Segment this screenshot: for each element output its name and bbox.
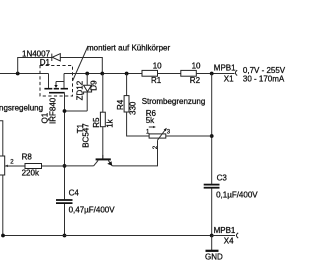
- wire source side to R1: [64, 73, 142, 75]
- svg-text:MPB1: MPB1: [214, 226, 236, 235]
- svg-text:X4: X4: [224, 237, 234, 246]
- resistor R5: [102, 74, 104, 113]
- node zener junction: [85, 72, 89, 76]
- node rail output junction: [210, 234, 214, 238]
- node D1 branch junction: [16, 72, 20, 76]
- transistor T1: [96, 158, 111, 160]
- capacitor C4: [56, 199, 73, 201]
- connector X1 MPB1: [235, 70, 237, 75]
- resistor R1: [142, 70, 158, 76]
- svg-text:10: 10: [153, 61, 162, 70]
- wire D1 bypass branch: [18, 58, 52, 74]
- node diode return / R5 junction: [100, 72, 104, 76]
- svg-text:0,47µF/400V: 0,47µF/400V: [69, 205, 116, 214]
- svg-text:Strombegrenzung: Strombegrenzung: [142, 97, 206, 106]
- svg-text:ZD12: ZD12: [76, 80, 85, 100]
- resistor R4: [126, 74, 128, 96]
- diode D1: [51, 54, 53, 61]
- resistor R2: [181, 70, 197, 76]
- wire pot pin2: [112, 140, 157, 166]
- svg-text:3: 3: [167, 130, 171, 136]
- svg-text:2: 2: [153, 145, 159, 149]
- transistor Q1 MOSFET symbol: [44, 89, 68, 93]
- svg-text:D9: D9: [90, 80, 99, 91]
- svg-text:montiert auf Kühlkörper: montiert auf Kühlkörper: [87, 44, 170, 53]
- svg-text:BC547: BC547: [82, 123, 91, 148]
- wire R2 to X1: [196, 73, 234, 75]
- resistor R8: [25, 164, 42, 169]
- wire T1 collector to gate node: [65, 165, 94, 167]
- bottom rail wire: [3, 235, 212, 237]
- svg-text:ngsregelung: ngsregelung: [0, 103, 43, 112]
- svg-text:10: 10: [192, 61, 201, 70]
- svg-text:5k: 5k: [146, 116, 155, 125]
- wire pot pin3 to output: [166, 135, 212, 137]
- svg-text:0,1µF/400V: 0,1µF/400V: [216, 190, 258, 199]
- wire gate / C4 vertical: [64, 94, 66, 200]
- capacitor C3: [204, 184, 220, 186]
- svg-text:X1: X1: [224, 74, 234, 83]
- dashed heatsink outline around Q1: [40, 66, 73, 97]
- node rail left corner: [1, 234, 5, 238]
- svg-text:GND: GND: [205, 253, 223, 262]
- svg-text:C4: C4: [69, 189, 80, 198]
- ground symbol: [211, 236, 213, 251]
- potentiometer R6: [149, 134, 166, 138]
- svg-text:R8: R8: [22, 153, 33, 162]
- svg-text:R2: R2: [190, 76, 201, 85]
- node gate-zener junction: [63, 109, 67, 113]
- svg-text:R1: R1: [151, 76, 162, 85]
- svg-text:30 - 170mA: 30 - 170mA: [243, 75, 285, 84]
- zener diode D9 ZD12: [86, 74, 88, 86]
- svg-text:MPB1: MPB1: [214, 63, 236, 72]
- svg-text:IRF840: IRF840: [49, 97, 58, 124]
- svg-text:R4: R4: [116, 99, 125, 110]
- node R4 junction: [125, 72, 129, 76]
- potentiometer P (left edge, clipped): [0, 121, 3, 156]
- node output junction: [210, 72, 214, 76]
- wire output vertical: [211, 74, 213, 184]
- svg-text:330: 330: [128, 101, 137, 115]
- annotation line to "montiert auf Kühlkörper": [73, 46, 89, 81]
- svg-text:2: 2: [10, 159, 14, 165]
- wire main input (left, drain side): [0, 73, 49, 75]
- svg-text:R5: R5: [92, 117, 101, 128]
- wire R1 to R2: [158, 73, 181, 75]
- svg-text:220k: 220k: [22, 168, 40, 177]
- connector X4 MPB1: [212, 235, 235, 237]
- node pot pin3 junction: [210, 134, 214, 138]
- node C4-rail junction: [63, 234, 67, 238]
- svg-text:C3: C3: [217, 173, 228, 182]
- svg-text:1k: 1k: [106, 118, 115, 127]
- node gate-R8 junction: [63, 164, 67, 168]
